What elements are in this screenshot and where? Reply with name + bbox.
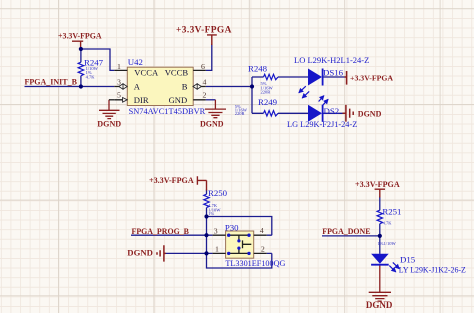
svg-text:1: 1 [215,244,219,253]
svg-text:U42: U42 [128,57,143,67]
svg-text:1%1/10W: 1%1/10W [378,241,397,246]
svg-text:+3.3V-FPGA: +3.3V-FPGA [355,180,400,189]
svg-text:220R: 220R [235,111,245,116]
svg-text:3: 3 [214,226,218,235]
svg-text:220R: 220R [261,89,271,94]
svg-text:FPGA_DONE: FPGA_DONE [322,227,370,236]
svg-text:4: 4 [203,77,207,86]
svg-text:5: 5 [117,91,121,100]
svg-text:6: 6 [201,62,205,71]
svg-text:+3.3V-FPGA: +3.3V-FPGA [58,32,102,41]
svg-text:DS2: DS2 [324,106,340,116]
svg-text:A: A [134,82,141,92]
svg-text:P30: P30 [225,222,239,232]
svg-text:R249: R249 [258,97,278,107]
svg-text:+3.3V-FPGA: +3.3V-FPGA [350,73,393,82]
svg-text:GND: GND [169,95,188,105]
svg-text:LG L29K-F2J1-24-Z: LG L29K-F2J1-24-Z [287,120,357,129]
svg-text:B: B [182,82,188,92]
svg-text:DGND: DGND [366,300,393,310]
svg-text:D15: D15 [400,255,416,265]
svg-text:4: 4 [260,226,264,235]
svg-text:FPGA_PROG_B: FPGA_PROG_B [132,227,190,236]
svg-text:FPGA_INIT_B: FPGA_INIT_B [25,77,78,86]
svg-text:4.7K: 4.7K [383,221,393,226]
svg-text:+3.3V-FPGA: +3.3V-FPGA [149,176,194,185]
svg-text:TL3301EF100QG: TL3301EF100QG [225,259,285,268]
svg-text:DGND: DGND [97,119,121,128]
svg-text:DGND: DGND [127,248,153,258]
svg-text:2: 2 [203,91,207,100]
svg-text:DGND: DGND [358,110,382,119]
svg-text:3: 3 [117,77,121,86]
svg-text:+3.3V-FPGA: +3.3V-FPGA [176,26,232,36]
svg-text:DS16: DS16 [323,67,344,77]
svg-text:SN74AVC1T45DBVR: SN74AVC1T45DBVR [129,107,206,116]
svg-text:VCCB: VCCB [165,67,189,77]
svg-text:LY L29K-J1K2-26-Z: LY L29K-J1K2-26-Z [399,265,466,274]
svg-text:LO L29K-H2L1-24-Z: LO L29K-H2L1-24-Z [294,55,369,65]
svg-text:DGND: DGND [200,120,224,129]
svg-text:VCCA: VCCA [134,67,159,77]
svg-text:1: 1 [117,62,121,71]
svg-text:4.7K: 4.7K [86,74,96,79]
svg-text:1%: 1% [208,211,214,216]
svg-text:DIR: DIR [134,95,149,105]
svg-text:R250: R250 [208,188,228,198]
svg-text:R248: R248 [248,63,268,73]
svg-text:2: 2 [261,245,265,254]
svg-text:R251: R251 [382,207,401,217]
